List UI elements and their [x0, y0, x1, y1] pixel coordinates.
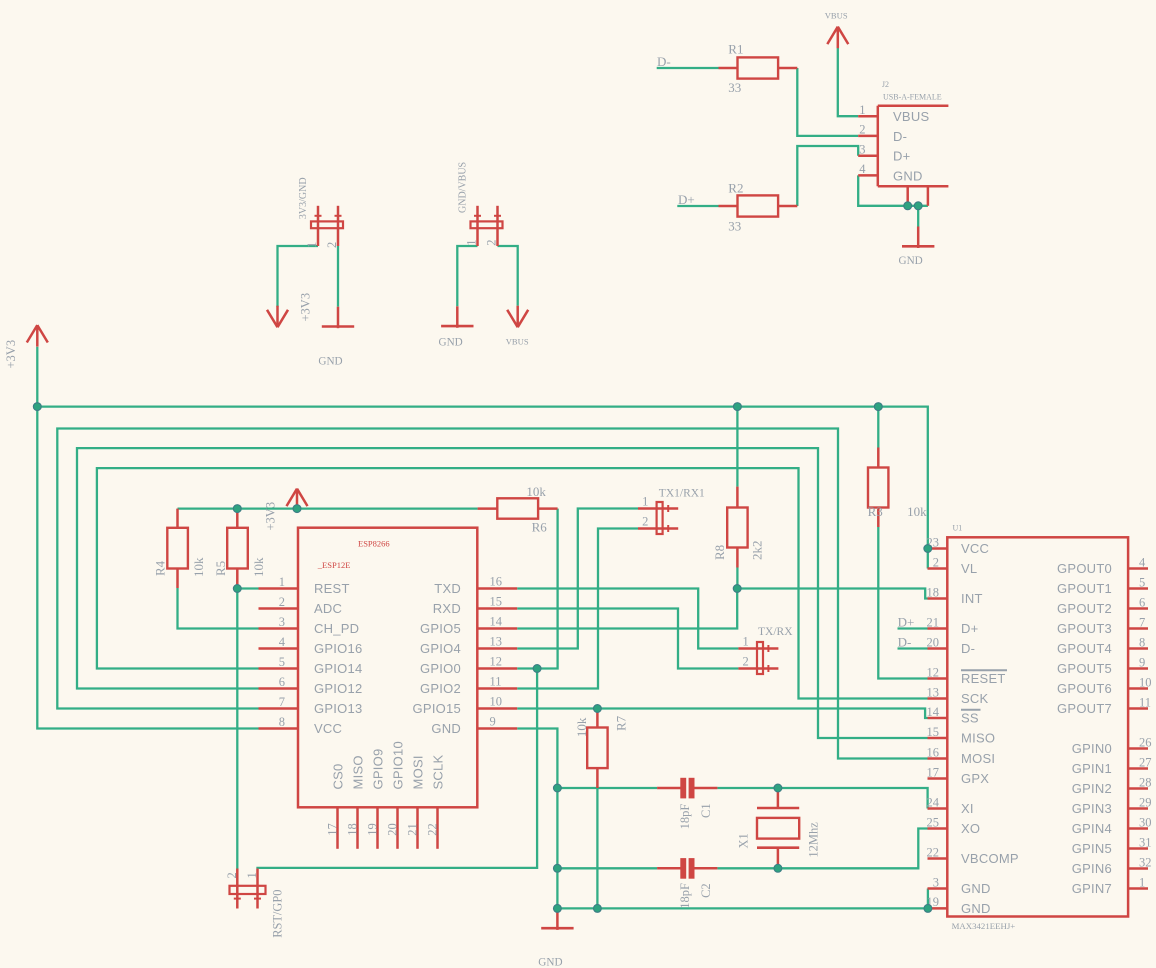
label R4 — [153, 560, 168, 576]
svg-text:GPIN1: GPIN1 — [1072, 761, 1112, 776]
ESP pin 12 stub — [477, 667, 517, 670]
svg-text:GPX: GPX — [961, 771, 989, 786]
wire 3V3/GND pin2 to GND — [337, 246, 339, 307]
pin number 12 (U1) — [927, 665, 940, 679]
label GND/VBUS — [457, 162, 468, 213]
ESP pin 3 stub — [259, 627, 299, 630]
label TX1/RX1 — [659, 488, 705, 500]
svg-text:1: 1 — [859, 103, 865, 117]
wire GPIO13 bus: ESP pin7 to U1 MOSI — [57, 429, 927, 759]
resistor R1 — [719, 57, 798, 78]
svg-text:R7: R7 — [614, 715, 629, 731]
pin name GPOUT7 (U1) — [1057, 701, 1112, 716]
label R8 — [712, 545, 727, 560]
svg-text:GND: GND — [431, 721, 461, 736]
ESP pin 5 stub — [259, 667, 299, 670]
pin number 18 (U1) — [927, 585, 940, 599]
svg-text:GPOUT4: GPOUT4 — [1057, 641, 1112, 656]
pin name MISO — [351, 755, 366, 789]
wire GPIO12 bus: ESP pin6 to U1 MISO — [77, 448, 928, 738]
ESP pin 8 stub — [259, 727, 299, 730]
svg-text:2: 2 — [325, 242, 339, 248]
svg-text:CS0: CS0 — [331, 763, 346, 789]
svg-text:GPIO9: GPIO9 — [371, 749, 386, 790]
pin name MOSI — [411, 755, 426, 789]
pin number 8 (U1 right) — [1139, 635, 1145, 649]
wire J2 pin4 to shield/GND — [858, 175, 928, 205]
pin number 11 (ESP) — [490, 675, 502, 689]
junction R3 on +3V3 bus — [874, 403, 882, 411]
svg-text:21: 21 — [406, 823, 420, 836]
U1 pin 6 stub — [1128, 607, 1148, 610]
J2 pin 4 stub — [858, 174, 878, 177]
svg-text:10: 10 — [490, 695, 503, 709]
svg-text:1: 1 — [279, 575, 285, 589]
wire R3 top to +3V3 bus — [877, 407, 879, 448]
power +3V3 symbol (down, header) — [267, 306, 288, 328]
svg-text:VCC: VCC — [961, 541, 989, 556]
wire C1 right / XI net to U1 XI — [717, 788, 927, 809]
ESP pin 11 stub — [477, 687, 517, 690]
pin name D- (J2) — [893, 129, 907, 144]
svg-text:10: 10 — [1139, 675, 1152, 689]
pin name GND (U1) — [961, 901, 991, 916]
svg-text:GPIO10: GPIO10 — [391, 741, 406, 789]
ESP pin 18 stub (bottom) — [356, 807, 359, 849]
svg-text:_ESP12E: _ESP12E — [317, 560, 351, 570]
value 10k (R4) — [191, 557, 206, 577]
junction +3V3 arrow on rail — [293, 505, 301, 513]
pin number 1 (3V3/GND) — [305, 242, 319, 248]
wire INT node to U1 INT — [737, 589, 927, 599]
J2 pin 3 stub — [858, 154, 878, 157]
value 10k (R6) — [526, 484, 546, 499]
svg-text:R4: R4 — [153, 560, 168, 576]
label R5 — [213, 561, 228, 576]
pin number 7 (ESP) — [279, 695, 285, 709]
pin number 19 (U1) — [927, 895, 940, 909]
svg-text:ESP8266: ESP8266 — [358, 538, 390, 548]
pin number 5 (ESP) — [279, 655, 285, 669]
U1 pin 7 stub — [1128, 627, 1148, 630]
svg-text:6: 6 — [1139, 595, 1145, 609]
U1 pin 1 stub — [1128, 887, 1148, 890]
U1 pin 31 stub — [1128, 847, 1148, 850]
capacitor C2 — [657, 858, 717, 879]
svg-text:D-: D- — [961, 641, 975, 656]
svg-text:X1: X1 — [736, 833, 750, 848]
svg-text:17: 17 — [326, 823, 340, 836]
connector J2 USB-A-FEMALE body — [878, 106, 949, 186]
U1 pin 9 stub — [1128, 667, 1148, 670]
pin number 3 (J2) — [859, 143, 865, 157]
label RST/GP0 — [271, 890, 285, 938]
net label VBUS (top) — [825, 11, 848, 21]
U1 pin 4 stub — [1128, 567, 1148, 570]
ESP pin 17 stub (bottom) — [336, 807, 339, 849]
IC module ESP8266 _ESP12E body — [298, 528, 477, 808]
svg-text:GPIN7: GPIN7 — [1072, 881, 1112, 896]
svg-text:8: 8 — [279, 715, 285, 729]
pin number 24 (U1) — [927, 795, 940, 809]
pin number 16 (ESP) — [490, 575, 503, 589]
svg-text:12Mhz: 12Mhz — [807, 822, 821, 858]
svg-text:GND: GND — [899, 255, 923, 267]
wire GND/VBUS pin2 to VBUS arrow — [498, 246, 518, 306]
label R3 — [868, 504, 883, 519]
ESP pin 6 stub — [259, 687, 299, 690]
svg-text:3: 3 — [933, 875, 939, 889]
wire +3V3 rail above R4/R5 — [178, 507, 478, 509]
junction REST/R5/RST header — [233, 585, 241, 593]
pin name GPIO5 — [420, 621, 461, 636]
pin number 1 (J2) — [859, 103, 865, 117]
ESP pin 22 stub (bottom) — [436, 807, 439, 849]
pin name GPOUT5 (U1) — [1057, 661, 1112, 676]
wire GPIO14 bus: ESP pin5 to U1 SCK — [97, 468, 928, 698]
svg-text:RST/GP0: RST/GP0 — [271, 890, 285, 938]
value 2k2 (R8) — [749, 541, 764, 561]
svg-text:5: 5 — [279, 655, 285, 669]
junction GPIO0 / RST header — [533, 665, 541, 673]
pin number 13 (ESP) — [490, 635, 503, 649]
svg-text:9: 9 — [1139, 655, 1145, 669]
pin number 7 (U1 right) — [1139, 615, 1145, 629]
pin name XO (U1) — [961, 821, 980, 836]
wire GPIO5 to INT node — [517, 589, 737, 629]
resistor R6 — [478, 498, 558, 518]
pin number 10 (U1 right) — [1139, 675, 1152, 689]
pin name VCC (U1) — [961, 541, 989, 556]
svg-text:GPIN5: GPIN5 — [1072, 841, 1112, 856]
svg-text:10k: 10k — [574, 717, 589, 737]
resistor R4 — [167, 509, 188, 588]
pin number 30 (U1 right) — [1139, 815, 1152, 829]
net label GND (header2) — [439, 336, 463, 348]
pin name GPOUT3 (U1) — [1057, 621, 1112, 636]
svg-text:19: 19 — [366, 823, 380, 836]
pin name GPIO10 — [391, 741, 406, 789]
svg-text:12: 12 — [490, 655, 503, 669]
value 10k (R3) — [907, 504, 927, 519]
pin name VBCOMP (U1) — [961, 851, 1019, 866]
wire GPIO2 to TX1/RX1 pin2 — [517, 529, 638, 689]
ESP pin 10 stub — [477, 707, 517, 710]
svg-text:18pF: 18pF — [678, 883, 692, 909]
label C2 — [699, 883, 713, 898]
label TX/RX — [758, 626, 793, 638]
wire C2 right / XO net to U1 XO — [717, 829, 927, 869]
ground symbol (bottom) — [541, 908, 573, 930]
svg-text:14: 14 — [490, 615, 503, 629]
ESP pin 15 stub — [477, 607, 517, 610]
U1 pin 29 stub — [1128, 807, 1148, 810]
J2 shield stub A — [906, 186, 909, 202]
svg-text:2: 2 — [933, 555, 939, 569]
svg-text:3: 3 — [859, 143, 865, 157]
svg-text:D-: D- — [657, 54, 671, 69]
svg-text:D+: D+ — [678, 192, 695, 207]
svg-text:GPOUT6: GPOUT6 — [1057, 681, 1112, 696]
wire GPIO4 to TX1/RX1 pin1 — [517, 509, 638, 649]
pin name VCC — [314, 721, 342, 736]
svg-text:7: 7 — [1139, 615, 1145, 629]
ESP pin 7 stub — [259, 707, 299, 710]
wire R1 to J2 pin2 D- — [797, 68, 858, 136]
svg-text:5: 5 — [1139, 575, 1145, 589]
wire RST/GP0 pin1 to GPIO0 net — [258, 669, 538, 869]
svg-text:31: 31 — [1139, 835, 1152, 849]
pin name GPIN1 (U1) — [1072, 761, 1112, 776]
pin name RXD — [433, 601, 461, 616]
svg-text:GPIO0: GPIO0 — [420, 661, 461, 676]
svg-text:+3V3: +3V3 — [299, 293, 313, 322]
svg-text:R8: R8 — [712, 545, 727, 560]
pin name GPIO0 — [420, 661, 461, 676]
svg-text:GPIO14: GPIO14 — [314, 661, 362, 676]
junction J2 shield A — [904, 202, 912, 210]
pin number 16 (U1) — [927, 745, 940, 759]
ESP pin 9 stub — [477, 727, 517, 730]
junction R5 top on +3V3 rail — [233, 505, 241, 513]
U1 pin 30 stub — [1128, 827, 1148, 830]
U1 pin 11 stub — [1128, 707, 1148, 710]
pin name GPIO15 — [413, 701, 461, 716]
svg-text:16: 16 — [490, 575, 503, 589]
svg-text:RESET: RESET — [961, 671, 1006, 686]
pin number 21 (U1) — [927, 615, 940, 629]
pin number 14 (ESP) — [490, 615, 503, 629]
pin number 4 (U1 right) — [1139, 555, 1146, 569]
wire R8 top to +3V3 bus — [736, 407, 738, 487]
svg-text:GPIO16: GPIO16 — [314, 641, 362, 656]
pin name MOSI (U1) — [961, 751, 995, 766]
IC U1 MAX3421EEHJ+ body — [947, 537, 1128, 916]
svg-text:1: 1 — [1139, 875, 1145, 889]
svg-text:GND: GND — [961, 881, 991, 896]
pin number 18 (ESP bottom) — [346, 823, 360, 836]
svg-text:18: 18 — [346, 823, 360, 836]
pin name GPIN7 (U1) — [1072, 881, 1112, 896]
svg-text:4: 4 — [859, 162, 866, 176]
pin number 2 (RST/GP0) — [225, 872, 239, 878]
pin name GPIN3 (U1) — [1072, 801, 1112, 816]
wire TXD to TX/RX pin1 — [517, 589, 738, 649]
pin number 1 (TX1/RX1) — [642, 494, 648, 508]
pin number 2 (TX/RX) — [743, 654, 749, 668]
label R6 — [532, 520, 548, 535]
pin number 2 (U1) — [933, 555, 939, 569]
title ESP8266 — [358, 538, 390, 548]
svg-text:13: 13 — [927, 685, 940, 699]
svg-text:VBUS: VBUS — [825, 11, 848, 21]
svg-text:C2: C2 — [699, 883, 713, 898]
pin name CH_PD — [314, 621, 359, 636]
ESP pin 16 stub — [477, 587, 517, 590]
svg-text:15: 15 — [490, 595, 503, 609]
wire GND/VBUS pin1 to GND — [457, 246, 477, 306]
pin name TXD — [434, 581, 461, 596]
junction GND at ESP-GND drop — [553, 904, 561, 912]
value 10k (R5) — [251, 557, 266, 577]
pin number 1 (GND/VBUS) — [465, 240, 479, 246]
wire RXD to TX/RX pin2 — [517, 609, 738, 669]
label X1 — [736, 833, 750, 848]
svg-text:9: 9 — [490, 715, 496, 729]
svg-text:GPOUT0: GPOUT0 — [1057, 561, 1112, 576]
U1 pin 32 stub — [1128, 867, 1148, 870]
U1 pin 5 stub — [1128, 587, 1148, 590]
wire REST net down to RST/GP0 header pin2 — [236, 589, 238, 869]
value 12Mhz (X1) — [807, 822, 821, 858]
resistor R5 — [227, 509, 248, 589]
connector RST/GP0 header (pins down) — [230, 869, 266, 909]
svg-text:GPOUT7: GPOUT7 — [1057, 701, 1112, 716]
svg-text:4: 4 — [279, 635, 286, 649]
U1 pin 24 stub — [928, 807, 948, 810]
svg-text:+3V3: +3V3 — [264, 502, 278, 531]
svg-text:25: 25 — [927, 815, 940, 829]
svg-text:SS: SS — [961, 711, 979, 726]
net label GND (J2) — [899, 255, 923, 267]
svg-text:REST: REST — [314, 581, 350, 596]
pin name GND — [431, 721, 461, 736]
junction J2 GND drop — [914, 202, 922, 210]
svg-text:2: 2 — [279, 595, 285, 609]
pin name GPIO14 — [314, 661, 362, 676]
svg-text:10k: 10k — [251, 557, 266, 577]
U1 pin 10 stub — [1128, 687, 1148, 690]
pin number 2 (J2) — [859, 123, 865, 137]
svg-text:24: 24 — [927, 795, 940, 809]
label R7 — [614, 715, 629, 731]
pin number 25 (U1) — [927, 815, 940, 829]
wire +3V3 top bus to U1 VCC/VL — [37, 407, 928, 569]
pin number 2 (TX1/RX1) — [642, 514, 648, 528]
net label GND (bottom) — [538, 956, 562, 968]
svg-text:D-: D- — [898, 635, 912, 650]
svg-text:3V3/GND: 3V3/GND — [298, 177, 309, 219]
svg-text:MISO: MISO — [351, 755, 366, 789]
junction R8 on +3V3 bus — [733, 403, 741, 411]
junction crystal bottom on XO net — [774, 864, 782, 872]
resistor R3 — [868, 448, 888, 528]
svg-text:TX1/RX1: TX1/RX1 — [659, 488, 705, 500]
pin number 27 (U1 right) — [1139, 755, 1152, 769]
ground symbol (header2) — [441, 306, 473, 328]
U1 pin 19 stub — [928, 907, 948, 910]
svg-text:22: 22 — [426, 823, 440, 836]
svg-text:21: 21 — [927, 615, 940, 629]
svg-text:10k: 10k — [526, 484, 546, 499]
svg-text:D+: D+ — [893, 149, 910, 164]
pin name GPIO16 — [314, 641, 362, 656]
svg-text:GND: GND — [439, 336, 463, 348]
pin name GPX (U1) — [961, 771, 989, 786]
svg-text:D+: D+ — [898, 615, 915, 630]
svg-text:32: 32 — [1139, 855, 1152, 869]
svg-text:1: 1 — [642, 494, 648, 508]
svg-text:6: 6 — [279, 675, 285, 689]
wire ESP GND pin9 down — [517, 729, 557, 909]
pin number 2 (3V3/GND) — [325, 242, 339, 248]
svg-text:1: 1 — [305, 242, 319, 248]
pin name GPOUT4 (U1) — [1057, 641, 1112, 656]
svg-text:U1: U1 — [953, 524, 963, 533]
pin number 10 (ESP) — [490, 695, 503, 709]
pin name GPOUT0 (U1) — [1057, 561, 1112, 576]
label R1 — [728, 42, 743, 57]
svg-text:33: 33 — [728, 80, 741, 95]
svg-text:29: 29 — [1139, 795, 1152, 809]
svg-text:+3V3: +3V3 — [4, 340, 18, 369]
svg-text:GPIN4: GPIN4 — [1072, 821, 1112, 836]
pin name GPIO2 — [420, 681, 461, 696]
pin number 12 (ESP) — [490, 655, 503, 669]
U1 pin 21 stub — [928, 627, 948, 630]
svg-text:2: 2 — [485, 240, 499, 246]
pin number 1 (U1 right) — [1139, 875, 1145, 889]
ESP pin 20 stub (bottom) — [396, 807, 399, 849]
svg-text:MAX3421EEHJ+: MAX3421EEHJ+ — [952, 921, 1016, 931]
pin number 5 (U1 right) — [1139, 575, 1145, 589]
pin number 20 (U1) — [927, 635, 940, 649]
pin number 6 (ESP) — [279, 675, 285, 689]
svg-text:VBUS: VBUS — [893, 109, 929, 124]
pin number 3 (ESP) — [279, 615, 285, 629]
value 18pF (C2) — [678, 883, 692, 909]
svg-text:GPIO13: GPIO13 — [314, 701, 362, 716]
U1 pin 18 stub — [928, 597, 948, 600]
svg-text:GPIO12: GPIO12 — [314, 681, 362, 696]
svg-text:GPIN0: GPIN0 — [1072, 741, 1112, 756]
J2 shield stub B — [927, 186, 930, 206]
pin number 21 (ESP bottom) — [406, 823, 420, 836]
pin number 2 (GND/VBUS) — [485, 240, 499, 246]
capacitor C1 — [657, 778, 717, 799]
svg-text:VCC: VCC — [314, 721, 342, 736]
pin number 1 (ESP) — [279, 575, 285, 589]
pin name GPIO12 — [314, 681, 362, 696]
net label +3V3 (above ESP) — [264, 502, 278, 531]
svg-text:SCK: SCK — [961, 691, 989, 706]
svg-text:GPIN2: GPIN2 — [1072, 781, 1112, 796]
wire VBUS to J2 pin1 — [838, 48, 858, 116]
resistor R2 — [719, 195, 798, 216]
pin number 20 (ESP bottom) — [386, 823, 400, 836]
svg-text:R5: R5 — [213, 561, 228, 576]
svg-text:11: 11 — [490, 675, 502, 689]
svg-text:20: 20 — [927, 635, 940, 649]
svg-text:15: 15 — [927, 725, 940, 739]
svg-text:GND: GND — [893, 168, 923, 183]
pin name INT (U1) — [961, 591, 983, 606]
svg-text:30: 30 — [1139, 815, 1152, 829]
junction INT node — [733, 585, 741, 593]
junction GND/R7 — [593, 904, 601, 912]
svg-text:GPIO2: GPIO2 — [420, 681, 461, 696]
svg-text:GPOUT1: GPOUT1 — [1057, 581, 1112, 596]
svg-text:D-: D- — [893, 129, 907, 144]
svg-text:USB-A-FEMALE: USB-A-FEMALE — [883, 93, 942, 102]
pin number 15 (ESP) — [490, 595, 503, 609]
svg-text:12: 12 — [927, 665, 940, 679]
ground symbol (header1) — [322, 307, 354, 329]
svg-text:XO: XO — [961, 821, 980, 836]
svg-text:VL: VL — [961, 561, 977, 576]
pin name SS (U1) — [961, 710, 981, 726]
svg-text:MOSI: MOSI — [961, 751, 995, 766]
